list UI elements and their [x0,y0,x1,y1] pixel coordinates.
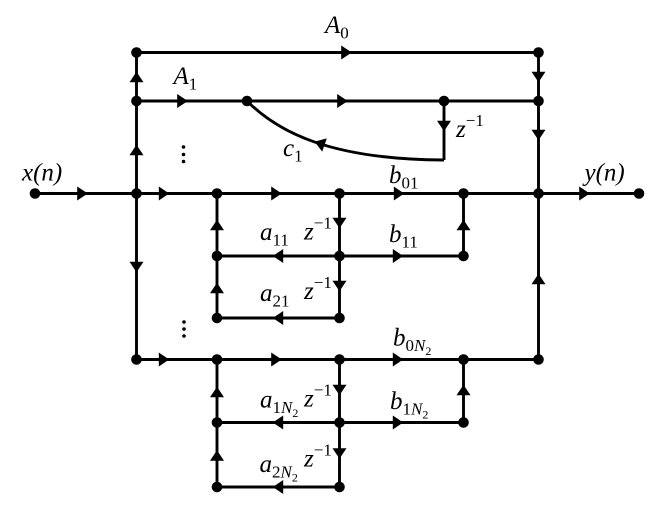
svg-text:x(n): x(n) [21,160,62,187]
svg-text:y(n): y(n) [582,160,625,187]
